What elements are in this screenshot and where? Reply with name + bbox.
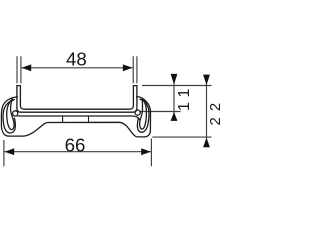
- dimension lines group: [4, 56, 212, 166]
- 48 extension lines: [17, 56, 137, 83]
- 11 bottom arrow: [171, 112, 178, 121]
- 66 right arrow: [141, 148, 151, 155]
- right curl rolled-end teardrop: [140, 98, 147, 129]
- part outline: [1, 86, 150, 137]
- plate tick 2: [88, 116, 90, 122]
- left hook circle: [13, 111, 18, 116]
- 48 right arrow: [123, 64, 133, 71]
- top extension line (11/22): [142, 85, 212, 87]
- 11 dimension line vertical: [173, 74, 175, 121]
- 22 top arrow: [203, 75, 210, 86]
- plate tick 1: [62, 116, 64, 122]
- 48 dimension line: [22, 67, 133, 69]
- tray: flanges + web: [17, 86, 137, 113]
- 66 dimension line: [5, 151, 151, 153]
- base plate top line: [18, 116, 140, 120]
- 66 left arrow: [5, 148, 15, 155]
- arrowheads: [5, 64, 210, 155]
- left curl inner loop: [3, 100, 15, 133]
- right curl inner loop: [137, 99, 149, 132]
- 22 bottom extension line: [152, 136, 211, 138]
- right hook circle: [135, 110, 140, 115]
- 66 extension lines: [4, 139, 152, 167]
- svg-text:66: 66: [65, 134, 86, 155]
- 11 bottom extension line: [140, 111, 181, 113]
- left curl rolled-end teardrop: [7, 99, 14, 130]
- outer silhouette: left curl, bottom, steps, right curl: [1, 97, 150, 137]
- 22 dimension line vertical: [206, 75, 208, 148]
- 11 top arrow: [171, 74, 178, 85]
- 22 bottom arrow: [203, 138, 210, 148]
- svg-text:48: 48: [66, 49, 87, 70]
- 48 left arrow: [22, 64, 32, 71]
